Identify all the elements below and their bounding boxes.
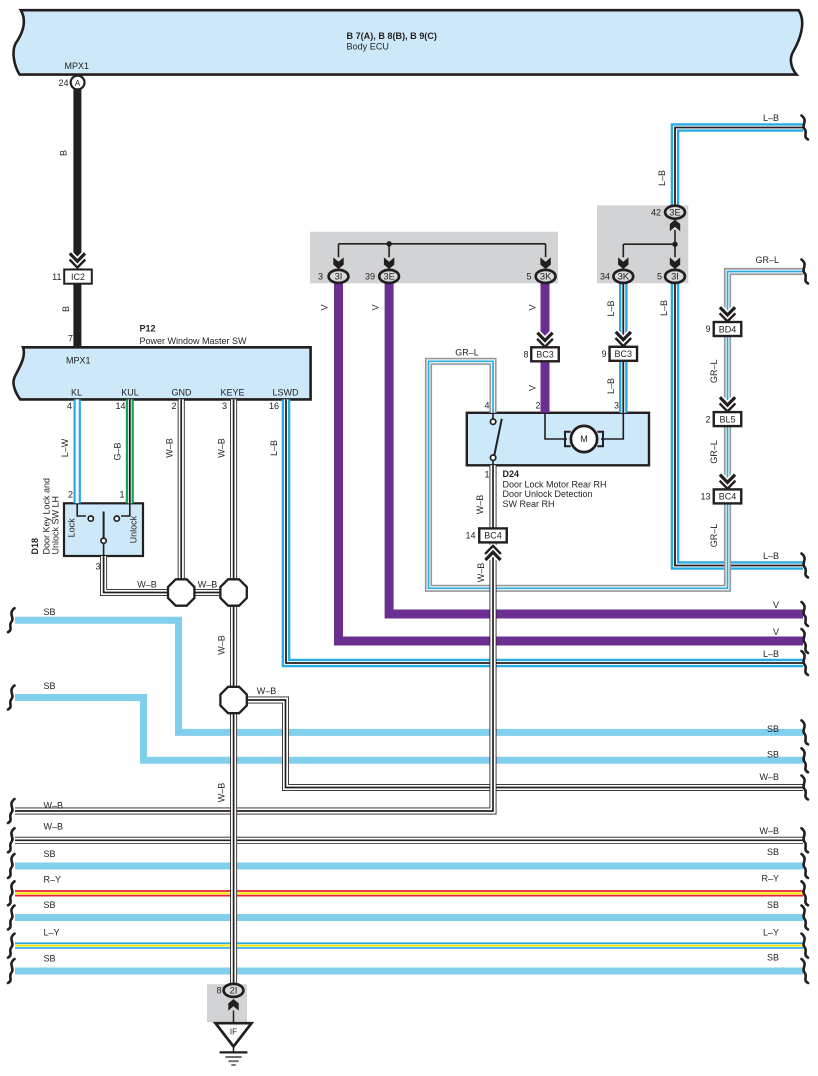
svg-text:2I: 2I <box>230 985 238 996</box>
svg-text:4: 4 <box>67 401 72 411</box>
svg-text:14: 14 <box>115 401 125 411</box>
svg-text:D24: D24 <box>503 469 520 479</box>
svg-text:L–B: L–B <box>606 378 616 394</box>
svg-text:SB: SB <box>767 750 779 760</box>
svg-text:SB: SB <box>44 954 56 964</box>
svg-text:8: 8 <box>216 986 221 996</box>
svg-text:W–B: W–B <box>476 563 486 583</box>
svg-text:BC3: BC3 <box>536 350 554 360</box>
svg-text:Unlock SW LH: Unlock SW LH <box>51 496 61 555</box>
svg-text:SB: SB <box>767 724 779 734</box>
svg-text:W–B: W–B <box>475 495 485 515</box>
svg-text:GR–L: GR–L <box>455 348 479 358</box>
svg-text:2: 2 <box>68 490 73 500</box>
svg-text:BL5: BL5 <box>719 414 735 424</box>
svg-text:3I: 3I <box>335 271 343 282</box>
svg-text:Unlock: Unlock <box>129 515 139 543</box>
svg-text:SB: SB <box>767 847 779 857</box>
svg-text:39: 39 <box>365 272 375 282</box>
svg-text:V: V <box>773 600 779 610</box>
svg-text:SW Rear RH: SW Rear RH <box>503 499 555 509</box>
svg-text:MPX1: MPX1 <box>66 356 91 366</box>
svg-text:3E: 3E <box>669 207 680 218</box>
svg-text:16: 16 <box>269 401 279 411</box>
svg-text:W–B: W–B <box>217 438 227 458</box>
svg-text:V: V <box>371 304 381 310</box>
svg-text:9: 9 <box>705 324 710 334</box>
svg-text:W–B: W–B <box>44 822 64 832</box>
svg-text:3E: 3E <box>383 271 394 282</box>
svg-text:W–B: W–B <box>198 580 218 590</box>
svg-text:9: 9 <box>601 349 606 359</box>
svg-text:3I: 3I <box>671 271 679 282</box>
svg-text:1: 1 <box>119 490 124 500</box>
svg-text:A: A <box>75 79 81 88</box>
svg-text:SB: SB <box>44 900 56 910</box>
svg-text:B: B <box>61 306 71 312</box>
svg-text:L–Y: L–Y <box>763 928 779 938</box>
svg-text:4: 4 <box>484 401 489 411</box>
svg-text:13: 13 <box>700 492 710 502</box>
svg-text:L–B: L–B <box>763 113 779 123</box>
svg-text:KEYE: KEYE <box>220 388 244 398</box>
svg-text:34: 34 <box>600 272 610 282</box>
svg-text:3: 3 <box>95 562 100 572</box>
svg-text:V: V <box>527 385 537 391</box>
svg-text:D18: D18 <box>30 538 40 555</box>
svg-text:L–B: L–B <box>269 440 279 456</box>
svg-text:Door Unlock Detection: Door Unlock Detection <box>503 489 593 499</box>
svg-text:IF: IF <box>230 1028 237 1037</box>
svg-text:P12: P12 <box>140 324 156 334</box>
svg-text:SB: SB <box>44 681 56 691</box>
svg-text:W–B: W–B <box>137 580 157 590</box>
svg-text:2: 2 <box>171 401 176 411</box>
svg-text:5: 5 <box>657 272 662 282</box>
svg-text:SB: SB <box>767 953 779 963</box>
svg-text:Power Window Master SW: Power Window Master SW <box>140 336 248 346</box>
svg-text:GND: GND <box>172 388 193 398</box>
svg-text:14: 14 <box>465 531 475 541</box>
svg-text:L–W: L–W <box>60 438 70 457</box>
svg-text:LSWD: LSWD <box>272 388 299 398</box>
svg-text:R–Y: R–Y <box>761 874 779 884</box>
svg-text:2: 2 <box>535 401 540 411</box>
svg-text:11: 11 <box>52 272 61 282</box>
svg-text:3: 3 <box>222 401 227 411</box>
svg-text:V: V <box>773 627 779 637</box>
svg-text:GR–L: GR–L <box>709 524 719 548</box>
svg-text:2: 2 <box>705 414 710 424</box>
svg-text:SB: SB <box>44 849 56 859</box>
svg-text:W–B: W–B <box>217 783 227 803</box>
svg-text:42: 42 <box>651 208 661 218</box>
svg-text:KL: KL <box>71 388 82 398</box>
svg-text:8: 8 <box>523 350 528 360</box>
svg-text:24: 24 <box>58 78 68 88</box>
svg-text:GR–L: GR–L <box>709 360 719 384</box>
svg-text:Body ECU: Body ECU <box>347 41 389 51</box>
svg-text:W–B: W–B <box>257 686 277 696</box>
svg-text:3K: 3K <box>540 271 552 282</box>
svg-text:L–B: L–B <box>606 300 616 316</box>
svg-text:1: 1 <box>484 470 489 480</box>
svg-text:L–B: L–B <box>659 300 669 316</box>
svg-text:3: 3 <box>318 272 323 282</box>
svg-text:BC3: BC3 <box>615 349 633 359</box>
svg-text:BC4: BC4 <box>484 531 502 541</box>
svg-text:BC4: BC4 <box>719 492 737 502</box>
svg-text:BD4: BD4 <box>719 324 737 334</box>
svg-text:B: B <box>59 150 69 156</box>
svg-text:GR–L: GR–L <box>755 255 779 265</box>
svg-text:SB: SB <box>767 900 779 910</box>
svg-text:V: V <box>527 304 537 310</box>
svg-text:SB: SB <box>44 607 56 617</box>
svg-text:L–Y: L–Y <box>44 928 60 938</box>
svg-text:3K: 3K <box>618 271 630 282</box>
svg-text:G–B: G–B <box>113 442 123 460</box>
svg-text:7: 7 <box>68 334 73 344</box>
svg-text:B 7(A), B 8(B), B 9(C): B 7(A), B 8(B), B 9(C) <box>347 31 437 41</box>
svg-text:V: V <box>320 304 330 310</box>
svg-text:Door Lock Motor Rear RH: Door Lock Motor Rear RH <box>503 480 607 490</box>
svg-text:KUL: KUL <box>121 388 139 398</box>
svg-text:R–Y: R–Y <box>44 875 62 885</box>
svg-text:GR–L: GR–L <box>709 440 719 464</box>
svg-text:W–B: W–B <box>44 801 64 811</box>
svg-text:IC2: IC2 <box>71 272 85 282</box>
svg-text:M: M <box>580 434 588 444</box>
svg-text:L–B: L–B <box>657 170 667 186</box>
svg-text:W–B: W–B <box>759 772 779 782</box>
svg-text:W–B: W–B <box>759 826 779 836</box>
svg-text:L–B: L–B <box>763 551 779 561</box>
svg-text:Lock: Lock <box>67 518 77 538</box>
svg-text:MPX1: MPX1 <box>65 61 90 71</box>
svg-text:3: 3 <box>614 401 619 411</box>
svg-text:L–B: L–B <box>763 649 779 659</box>
svg-text:W–B: W–B <box>217 635 227 655</box>
svg-text:5: 5 <box>526 272 531 282</box>
svg-text:W–B: W–B <box>164 438 174 458</box>
